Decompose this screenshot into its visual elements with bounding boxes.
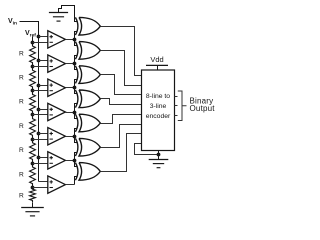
op-amp comparator U7 — [48, 176, 66, 193]
wire U4 + input — [39, 109, 48, 111]
svg-text:R: R — [19, 147, 24, 154]
svg-text:R: R — [19, 99, 24, 106]
node U4 output junction — [73, 111, 77, 115]
wire G5 output to encoder input 5 — [101, 115, 142, 124]
op-amp comparator U3 — [48, 79, 66, 96]
wire Vdd to encoder — [157, 66, 159, 71]
wire U2 output — [66, 63, 75, 65]
op-amp comparator U2 — [48, 55, 66, 72]
wire U2 to G2 lower input — [75, 56, 78, 64]
wire U6 - input — [33, 163, 48, 165]
node U5 output junction — [73, 135, 77, 139]
svg-text:Vin: Vin — [8, 18, 17, 26]
node comparator U3 + junction — [37, 84, 41, 88]
resistor R3 — [30, 91, 36, 115]
wire binary output bit 0 — [175, 96, 178, 98]
XOR gate G4 — [75, 90, 100, 108]
node comparator U6 + junction — [37, 156, 41, 160]
XOR gate G2 — [75, 42, 100, 60]
wire U2 + input — [39, 60, 48, 62]
wire U7 output — [66, 184, 75, 186]
power rail Vdd — [146, 64, 168, 66]
svg-text:Output: Output — [190, 104, 216, 113]
encoder U8: 8-line to 3-line encoder — [142, 70, 175, 151]
wire U2 - input — [33, 66, 48, 68]
wire U7 + input — [39, 181, 48, 183]
resistor R5 — [30, 139, 36, 163]
node ladder tap 7 — [31, 186, 35, 190]
wire U3 to G4 upper input — [75, 88, 78, 94]
svg-text:Vref: Vref — [25, 30, 36, 38]
wire G2 output to encoder input 2 — [101, 51, 142, 86]
svg-text:R: R — [19, 193, 24, 200]
resistor R1 — [30, 42, 36, 66]
wire U4 - input — [33, 114, 48, 116]
wire U7 - input — [33, 187, 48, 189]
wire ground to G1 top input — [59, 6, 78, 22]
wire U1 to G1 lower input — [75, 32, 78, 40]
wire U4 to G4 lower input — [75, 104, 78, 113]
wire encoder GND pin — [158, 151, 160, 160]
wire U4 to G5 upper input — [75, 113, 78, 119]
node ladder tap 6 — [31, 162, 35, 166]
node comparator U4 + junction — [37, 108, 41, 112]
wire G4 output to encoder input 4 — [101, 99, 142, 105]
wire U3 to G3 lower input — [75, 80, 78, 88]
resistor R7 — [30, 187, 36, 202]
resistor R4 — [30, 115, 36, 139]
wire U5 to G5 lower input — [75, 129, 78, 137]
XOR gate G1 — [75, 17, 100, 35]
node comparator U2 + junction — [37, 59, 41, 63]
node ladder tap 4 — [31, 113, 35, 117]
wire U3 + input — [39, 85, 48, 87]
wire U6 + input — [39, 157, 48, 159]
wire U3 output — [66, 87, 75, 89]
svg-text:R: R — [19, 50, 24, 57]
wire G6 output to encoder input 6 — [101, 125, 142, 148]
op-amp comparator U6 — [48, 152, 66, 169]
node comparator U5 + junction — [37, 132, 41, 136]
wire U1 + input — [39, 36, 48, 38]
wire Vin bus — [20, 22, 39, 182]
wire U1 - input — [33, 42, 48, 44]
node ladder tap 5 — [31, 138, 35, 142]
wire encoder input 8 to ground — [135, 144, 159, 155]
svg-text:R: R — [19, 171, 24, 178]
op-amp comparator U1 — [48, 31, 66, 48]
node U6 output junction — [73, 159, 77, 163]
svg-text:encoder: encoder — [146, 113, 171, 120]
svg-text:3-line: 3-line — [150, 103, 167, 110]
wire G1 output to encoder input 1 — [101, 27, 142, 76]
XOR gate G5 — [75, 114, 100, 132]
node comparator U1 + junction — [37, 35, 41, 39]
wire U6 to G6 lower input — [75, 153, 78, 161]
svg-text:8-line to: 8-line to — [146, 93, 170, 100]
wire U5 output — [66, 136, 75, 138]
node ladder tap 3 — [31, 89, 35, 93]
svg-text:R: R — [19, 75, 24, 82]
wire U6 output — [66, 160, 75, 162]
wire U5 - input — [33, 139, 48, 141]
bracket binary output — [178, 91, 187, 121]
svg-text:R: R — [19, 123, 24, 130]
wire U3 - input — [33, 90, 48, 92]
node U1 output junction — [73, 38, 77, 42]
ground encoder — [149, 160, 169, 168]
op-amp comparator U4 — [48, 103, 66, 120]
wire U5 + input — [39, 133, 48, 135]
wire Vref to ladder — [32, 37, 34, 43]
wire U5 to G6 upper input — [75, 137, 78, 143]
wire U1 to G2 upper input — [75, 40, 78, 46]
wire U1 output — [66, 39, 75, 41]
node ladder tap 1 — [31, 41, 35, 45]
wire U2 to G3 upper input — [75, 64, 78, 70]
node ladder tap 2 — [31, 65, 35, 69]
wire ladder to ground — [32, 203, 34, 208]
wire U6 to G7 upper input — [75, 161, 78, 167]
resistor R6 — [30, 163, 36, 187]
node U2 output junction — [73, 62, 77, 66]
ground ladder — [21, 208, 44, 216]
wire U7 to G7 lower input — [75, 177, 78, 185]
wire U4 output — [66, 112, 75, 114]
XOR gate G3 — [75, 66, 100, 84]
resistor R2 — [30, 66, 36, 90]
wire binary output bit 1 — [175, 105, 178, 107]
svg-text:Vdd: Vdd — [150, 55, 163, 64]
wire binary output bit 2 — [175, 115, 178, 117]
ground top (gate G1 input) — [49, 13, 68, 22]
op-amp comparator U5 — [48, 128, 66, 145]
node encoder ground junction — [157, 153, 161, 157]
node U3 output junction — [73, 86, 77, 90]
wire G7 output to encoder input 7 — [101, 134, 142, 172]
wire G3 output to encoder input 3 — [101, 75, 142, 95]
XOR gate G6 — [75, 138, 100, 156]
XOR gate G7 — [75, 163, 100, 181]
